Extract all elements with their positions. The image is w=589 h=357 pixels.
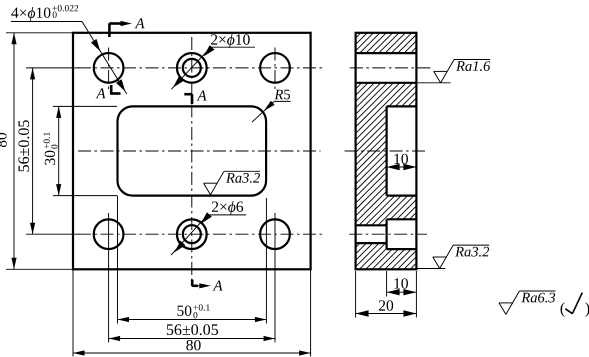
side view outline	[356, 33, 417, 269]
centerline center column	[191, 37, 193, 280]
side view pocket bottom edge	[387, 195, 417, 197]
side view phi6 top edge	[356, 224, 387, 226]
extension line for Ra1.6	[416, 82, 450, 84]
extension line top edge for dim 80	[6, 32, 73, 34]
dimension 10 counterbore depth	[387, 278, 417, 295]
side view phi6 bottom edge	[356, 242, 387, 244]
centerline top-left hole vertical	[108, 48, 110, 90]
side view pocket top edge	[387, 105, 417, 107]
surface finish Ra6.3 general note	[499, 291, 555, 314]
dimension 30 +0.1/0 left	[43, 106, 61, 195]
extension line side right for dims	[415, 271, 417, 318]
side view counterbore floor	[386, 219, 388, 249]
extension line for side Ra3.2	[416, 268, 445, 270]
extension line plate left for dim 80	[72, 269, 74, 356]
side view centerline bottom hole	[349, 233, 427, 235]
section arrow lower-left of bottom-center hole	[175, 241, 186, 253]
label 2xphi6 with leader and arrow	[171, 201, 246, 255]
side view hatch band above pocket	[356, 83, 417, 107]
section arrow lower-right of top-left hole	[116, 79, 125, 91]
dimension 80 bottom	[73, 340, 311, 356]
section mark A below top-left hole	[96, 85, 121, 98]
hole top-center phi6	[183, 59, 201, 77]
hole bottom-left 4xphi10	[94, 219, 124, 249]
pocket rounded rectangle 50x30 R5	[118, 106, 267, 195]
label 4xphi10 +0.022/0 with leader and arrow	[11, 5, 127, 94]
label R5 with leader to pocket corner	[252, 90, 291, 122]
side view top hole lower edge	[356, 82, 417, 84]
section mark A below top-center hole	[184, 91, 206, 104]
basic symbol in parentheses	[561, 293, 589, 317]
hole bottom-center counterbore phi10	[177, 219, 207, 249]
surface finish Ra1.6	[434, 60, 491, 83]
side view centerline top hole	[350, 67, 432, 69]
extension line plate right for dim 80	[310, 269, 312, 356]
surface finish Ra3.2 side	[433, 245, 489, 268]
extension line top hole row for dim 56	[26, 67, 79, 69]
surface finish Ra3.2 on pocket bottom	[204, 171, 260, 194]
hole bottom-right 4xphi10	[260, 219, 290, 249]
extension line pocket bottom for dim 30	[53, 195, 117, 197]
side view counterbore bottom edge	[387, 248, 417, 250]
extension line counterbore floor for dim 10	[386, 271, 388, 297]
dimension 56±0.05 left	[18, 68, 35, 234]
extension line bottom hole row for dim 56	[26, 233, 79, 235]
centerline middle row	[78, 150, 321, 152]
dimension 56±0.05 bottom	[109, 324, 275, 341]
side view top hole upper edge	[356, 52, 417, 54]
hole top-center counterbore phi10	[177, 53, 207, 83]
section arrow lower-left of top-center hole	[173, 76, 184, 87]
extension line pocket right for dim 50	[265, 198, 267, 324]
dimension 10 pocket depth	[387, 154, 417, 171]
dimension 50 +0.1/0 bottom	[118, 304, 267, 322]
extension line pocket left for dim 50	[117, 196, 119, 324]
side view centerline middle	[345, 150, 425, 152]
side view hatch left column beside pocket	[356, 106, 387, 195]
extension line bottom edge for dim 80	[6, 268, 73, 270]
label 2xphi10 with leader and arrow	[171, 34, 255, 89]
side view hatch top band	[356, 33, 417, 53]
section mark A at top with view arrow	[109, 18, 144, 37]
side view hatch left strip below phi6	[356, 243, 387, 249]
plate outline (front view 80x80)	[73, 33, 311, 269]
hole top-right 4xphi10	[260, 53, 290, 83]
hole bottom-center phi6	[183, 225, 201, 243]
centerline bottom-left hole vertical + 56 extension	[108, 213, 110, 343]
section mark A at bottom with view arrow	[192, 280, 222, 291]
side view counterbore top edge	[387, 218, 417, 220]
extension line side left for dim 20	[355, 271, 357, 318]
side view hatch band below pocket	[356, 196, 417, 220]
dimension 20 thickness	[356, 300, 417, 316]
centerline top hole row	[78, 67, 322, 69]
centerline top-right hole vertical	[274, 48, 276, 90]
centerline bottom hole row	[78, 233, 322, 235]
side view hatch left strip above phi6	[356, 219, 387, 225]
dimension 80 left	[0, 33, 17, 269]
side view pocket floor	[386, 106, 388, 195]
hole top-left 4xphi10	[94, 53, 124, 83]
side view hatch bottom band	[356, 249, 417, 269]
centerline bottom-right hole vertical + 56 extension	[274, 213, 276, 343]
extension line pocket top for dim 30	[53, 105, 117, 107]
